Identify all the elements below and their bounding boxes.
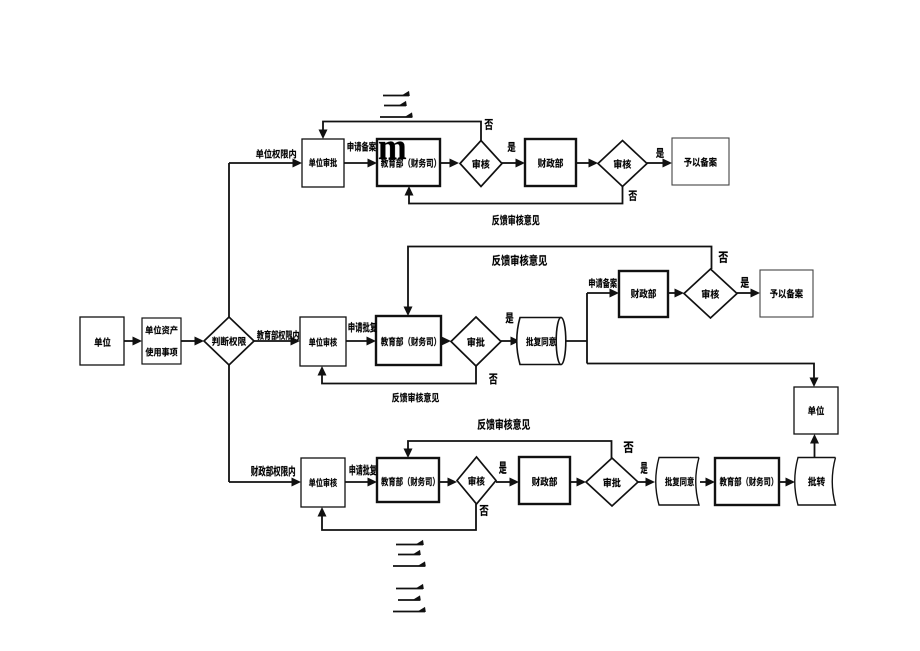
wire 审核T1→财政部 T xyxy=(502,159,525,168)
label 批复同意 M xyxy=(526,337,556,346)
box 单位审批 T xyxy=(302,139,344,187)
label 是 T1 xyxy=(507,142,515,152)
box 单位 R xyxy=(794,387,838,434)
label 否 T2 xyxy=(628,191,637,201)
wire branch vertical low xyxy=(228,365,230,482)
diamond 审核 M2 xyxy=(684,269,737,318)
label 使用事项 line2 xyxy=(146,348,178,357)
label 申请批复 M xyxy=(349,322,377,332)
label 单位审核 B xyxy=(309,478,337,487)
diamond 审核 T1 xyxy=(460,141,502,187)
wire 批复同意B→教育部B2 xyxy=(700,478,715,487)
wire 审核M2→予以备案 M xyxy=(737,289,760,298)
label 教育部权限内 xyxy=(257,330,299,340)
diamond 判断权限 xyxy=(204,317,254,365)
label 审核 B xyxy=(468,476,484,486)
label 予以备案 T xyxy=(684,157,717,167)
wire 单位审批→教育部 T xyxy=(344,159,377,168)
wire 教育部B2→批转 xyxy=(779,478,795,487)
artifact 三 #2 (bottom) xyxy=(393,540,426,567)
label 教育部（财务司）B2 xyxy=(720,477,774,487)
label 是 B1 xyxy=(499,462,506,474)
label 申请备案 M xyxy=(589,278,617,288)
label 审核 T2 xyxy=(614,159,631,169)
artifact 三 #1 (top) xyxy=(380,91,413,118)
label 财政部 T xyxy=(538,158,563,168)
label 否 T1 xyxy=(484,119,493,130)
wire 判断权限→单位审核 (middle) xyxy=(254,337,300,346)
label 审批 B xyxy=(603,478,620,488)
label 单位权限内 xyxy=(256,149,296,159)
wire 否-loop 审批M→单位审核 M (反馈) xyxy=(318,366,477,384)
wire 财政部M→审核 M2 xyxy=(668,289,684,298)
box 教育部（财务司） B xyxy=(377,458,439,502)
wire 审核B→财政部 B xyxy=(496,478,519,487)
box 单位 (start) xyxy=(80,317,124,365)
wire junction vertical xyxy=(586,293,588,364)
box 财政部 T xyxy=(525,139,576,186)
label 反馈审核意见 M xyxy=(392,393,439,403)
label 教育部（财务司）B xyxy=(381,477,435,487)
wire branch vertical 判断权限↑↓ xyxy=(228,163,230,317)
label 单位审批 xyxy=(309,158,337,167)
wire 否-loop 审核T2→教育部 T (反馈) xyxy=(405,186,623,204)
diamond 审核 T2 xyxy=(598,141,647,187)
label 是 B2 xyxy=(641,462,648,474)
label 单位资产 line1 xyxy=(145,325,177,334)
wire 教育部→审核 T1 xyxy=(440,159,459,168)
label 批转 xyxy=(808,477,825,487)
label 是 M2 xyxy=(740,277,749,288)
cylinder 批转 (stored data) xyxy=(795,458,836,506)
wire 否-loop 审核B→单位审核 B xyxy=(318,504,477,530)
wire branch→单位审核 (bottom) xyxy=(229,478,301,487)
cylinder 批复同意 M xyxy=(517,318,566,365)
wire branch→单位审批 (top) xyxy=(229,159,302,168)
artifact 三 #3 (bottom) xyxy=(393,584,426,612)
box 予以备案 M xyxy=(760,270,813,317)
label 财政部权限内 xyxy=(251,466,295,477)
wire 单位审核B→教育部 B xyxy=(345,478,377,487)
box 财政部 B xyxy=(519,457,570,504)
wire 批复同意→junction xyxy=(567,340,588,342)
label 反馈审核意见 M2 xyxy=(492,255,547,266)
cylinder 批复同意 B (stored data) xyxy=(656,458,699,506)
label 否 B1 xyxy=(479,505,488,516)
wire 否-loop 审核T1→单位审批 xyxy=(319,122,482,141)
wire 否-loop 审核M2→教育部 M (反馈 top) xyxy=(404,247,712,317)
wire 否-loop 审批B→教育部 B (反馈) xyxy=(404,441,612,458)
label 财政部 B xyxy=(532,477,557,487)
wire 批转→单位 R xyxy=(810,434,819,457)
box 教育部（财务司） M xyxy=(376,316,441,365)
label 单位审核 M xyxy=(309,337,337,346)
label 否 M2 xyxy=(718,251,728,263)
label 予以备案 M xyxy=(770,289,803,299)
wire 单位审核→教育部 M xyxy=(346,337,376,346)
diamond 审批 M xyxy=(451,317,501,366)
box 单位审核 M xyxy=(300,317,346,366)
box 教育部（财务司） B2 xyxy=(715,458,779,505)
diamond 审核 B xyxy=(457,457,496,504)
box 财政部 M xyxy=(619,271,668,317)
label 反馈审核意见 B xyxy=(477,419,530,430)
label 否 B2 xyxy=(623,441,633,453)
wire 审核T2→予以备案 T xyxy=(647,159,672,168)
label 教育部（财务司）T xyxy=(381,158,436,168)
label 批复同意 B xyxy=(665,477,694,486)
label 审核 M2 xyxy=(702,289,719,299)
wire 财政部→审核 T2 xyxy=(576,159,598,168)
artifact serif m xyxy=(379,142,406,159)
wire junction→单位 R xyxy=(587,364,819,388)
label 单位 xyxy=(95,337,111,346)
label 单位 R xyxy=(808,406,824,415)
label 判断权限 xyxy=(212,336,246,346)
diamond 审批 B xyxy=(586,458,638,506)
label 是 T2 xyxy=(656,148,664,158)
label 反馈审核意见 T xyxy=(492,215,540,226)
label 申请备案 T xyxy=(348,141,376,151)
wire 单位资产使用事项→判断权限 xyxy=(181,337,204,346)
label 申请批复 B xyxy=(349,465,376,476)
label 财政部 M xyxy=(631,289,656,299)
label 教育部（财务司）M xyxy=(381,337,436,347)
wire 单位→单位资产使用事项 xyxy=(124,337,142,346)
wire 教育部M→审批 M xyxy=(441,337,451,346)
wire 财政部B→审批 B xyxy=(570,478,586,487)
label 是 M1 xyxy=(505,313,513,324)
label 否 M1 xyxy=(489,374,498,385)
label 审核 T1 xyxy=(472,159,489,169)
wire 教育部B→审核 B xyxy=(439,478,457,487)
wire 审批M→批复同意 M xyxy=(501,337,520,346)
box 单位资产使用事项 xyxy=(142,318,181,364)
box 教育部（财务司） T xyxy=(377,139,440,186)
wire 审批B→批复同意 B xyxy=(638,478,655,487)
box 予以备案 T xyxy=(672,138,729,185)
label 审批 M xyxy=(467,337,484,347)
box 单位审核 B xyxy=(301,458,345,507)
wire 申请备案→财政部 M xyxy=(587,289,619,298)
